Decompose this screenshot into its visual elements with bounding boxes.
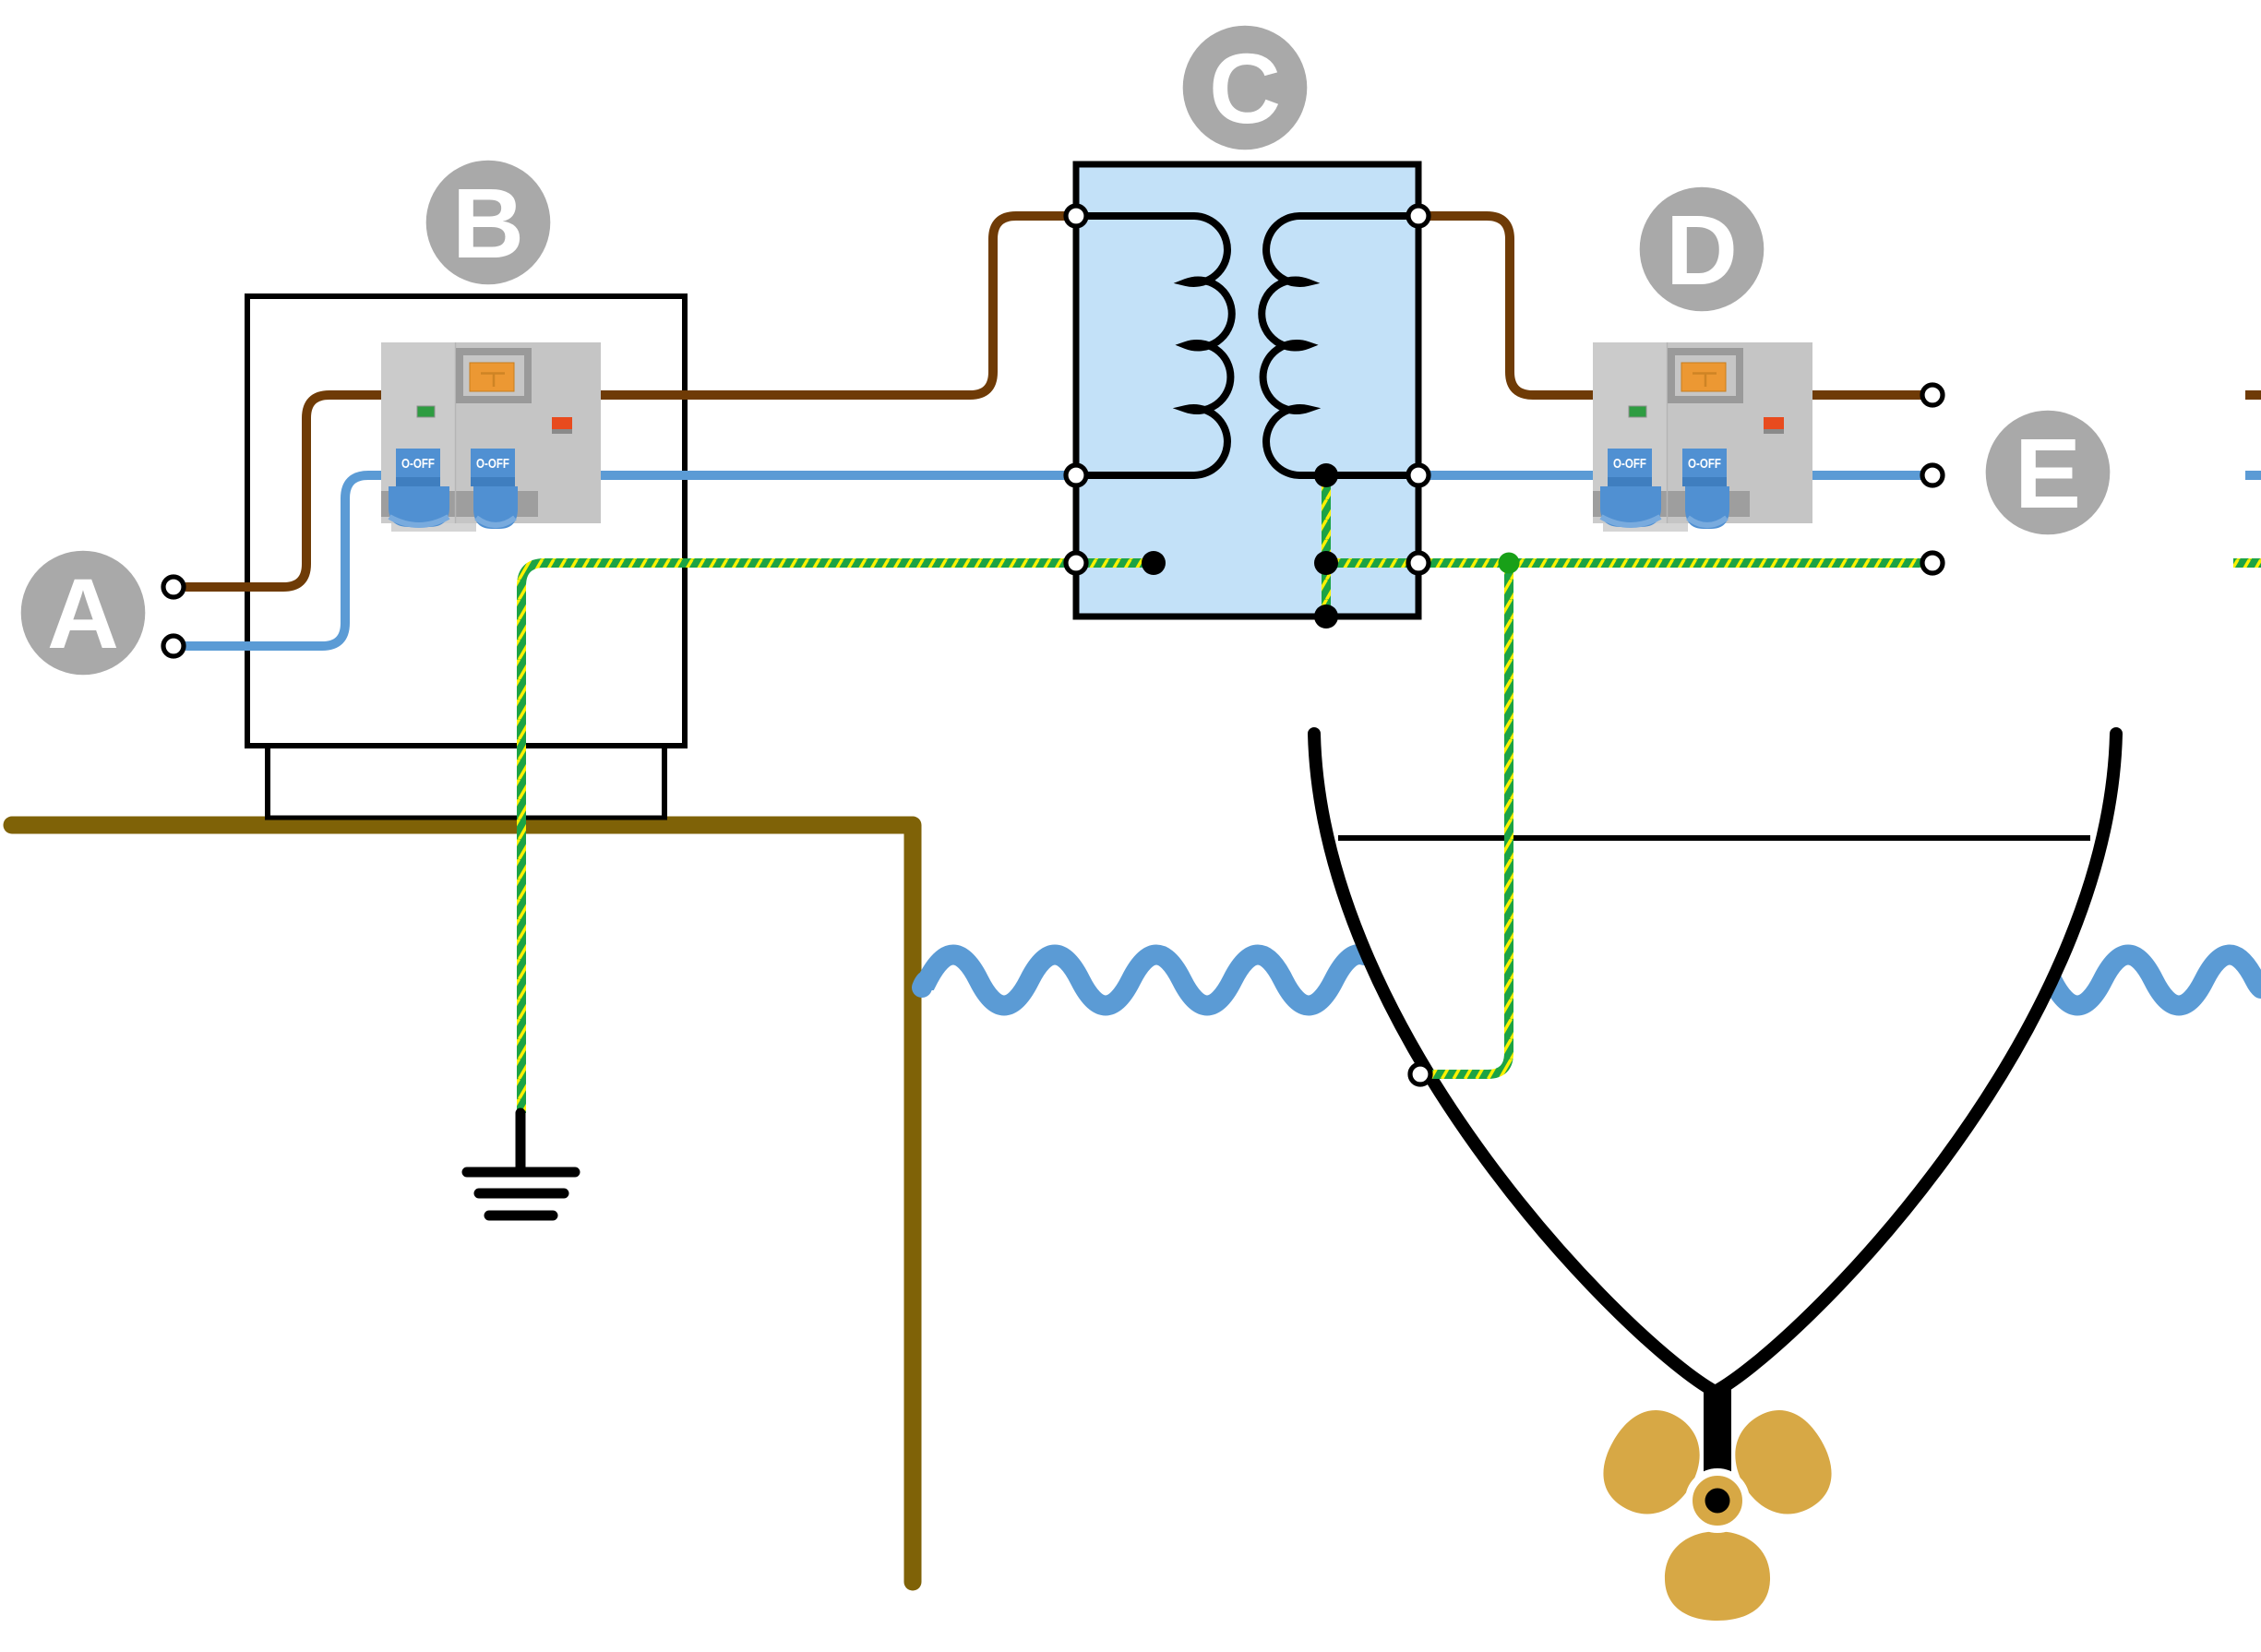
terminal A neutral <box>163 636 184 656</box>
boat live wire brown <box>1418 216 1921 395</box>
transformer terminal primary top <box>1066 206 1086 226</box>
terminal A live <box>163 577 184 597</box>
label B shore pedestal <box>426 161 551 285</box>
ground symbol <box>516 1113 526 1170</box>
node secondary neutral dot <box>1314 463 1338 487</box>
terminal E earth <box>1922 553 1943 573</box>
live stub right edge <box>2245 390 2261 400</box>
svg-text:E: E <box>2015 417 2081 529</box>
pedestal leg right <box>662 746 667 817</box>
transformer terminal secondary top <box>1408 206 1429 226</box>
transformer terminal earth in <box>1066 553 1086 573</box>
pedestal base line <box>265 816 667 820</box>
label C isolation transformer <box>1183 26 1308 150</box>
svg-text:B: B <box>452 167 524 279</box>
pedestal leg left <box>265 746 270 817</box>
terminal E live <box>1922 385 1943 405</box>
shore earth wire green/yellow <box>521 563 1152 1113</box>
label A shore supply <box>21 551 146 676</box>
shore live wire brown <box>185 216 1076 587</box>
propeller blades <box>1665 1531 1770 1621</box>
label E boat consumers <box>1986 411 2111 535</box>
hull bonding terminal <box>1410 1064 1430 1084</box>
primary coil <box>1076 216 1232 475</box>
RCD device B <box>381 342 601 532</box>
deck line <box>1338 835 2090 841</box>
transformer terminal secondary bottom <box>1408 465 1429 485</box>
isolation transformer C box <box>1076 164 1418 617</box>
svg-text:D: D <box>1666 194 1738 305</box>
svg-text:C: C <box>1209 32 1281 144</box>
node boat earth junction green <box>1499 553 1520 574</box>
terminal E neutral <box>1922 465 1943 485</box>
label D boat RCD <box>1640 187 1765 312</box>
transformer terminal primary bottom <box>1066 465 1086 485</box>
node transformer case dot <box>1314 605 1338 628</box>
water wave left <box>922 954 1364 1005</box>
RCD device D <box>1593 342 1812 532</box>
svg-text:A: A <box>47 557 119 669</box>
secondary coil <box>1262 216 1418 475</box>
transformer terminal earth out <box>1408 553 1429 573</box>
node earth bus dot <box>1314 551 1338 575</box>
water wave right <box>2052 955 2261 1006</box>
shore neutral wire blue <box>185 475 1076 646</box>
node shore earth end dot <box>1142 551 1166 575</box>
neutral stub right edge <box>2245 471 2261 480</box>
enclosure box B <box>247 296 685 746</box>
boat hull <box>1314 720 2116 1392</box>
boat neutral wire blue <box>1418 471 1921 480</box>
earth wire to hull bonding <box>1430 563 1509 1074</box>
propeller hub <box>1689 1472 1746 1529</box>
propeller shaft <box>1704 1386 1731 1475</box>
boat earth bus green/yellow <box>1326 558 1921 568</box>
earth stub right edge <box>2233 558 2261 568</box>
dock / shore quay <box>12 825 913 1582</box>
transformer neutral-earth link <box>1322 473 1331 617</box>
